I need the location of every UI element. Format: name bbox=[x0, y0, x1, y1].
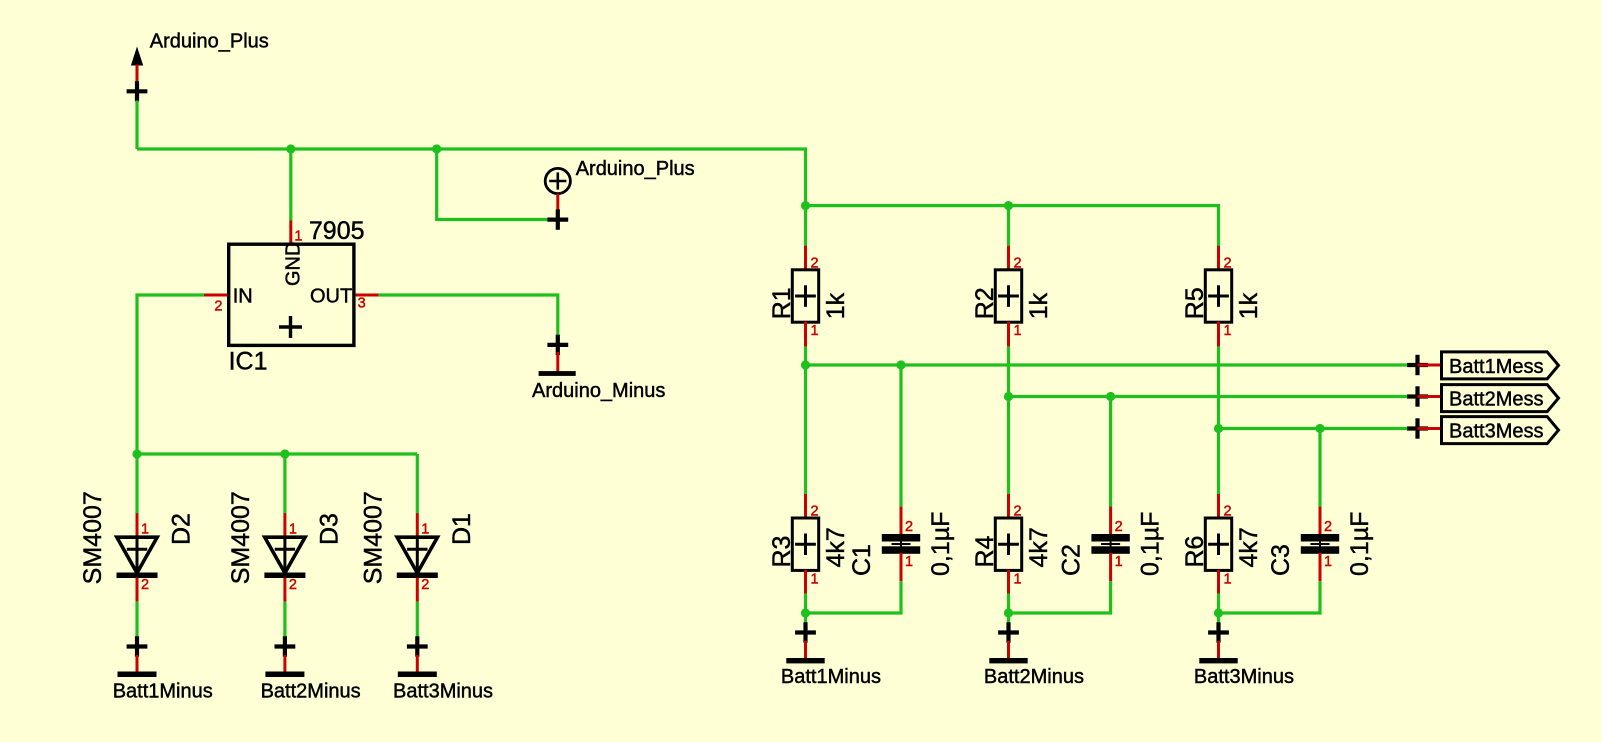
svg-text:2: 2 bbox=[1324, 519, 1332, 535]
label 1k (R2 value) bbox=[1025, 292, 1053, 319]
pin 1 stub of IC1 (GND) bbox=[289, 221, 292, 245]
wire from R2 bottom down to R4 bbox=[1007, 346, 1010, 494]
svg-text:1: 1 bbox=[294, 229, 302, 245]
junction at supply-symbol branch bbox=[432, 144, 441, 153]
pin name GND of IC1 bbox=[282, 242, 304, 286]
pin stub of net flag Batt3Mess bbox=[1418, 427, 1442, 430]
supply symbol Arduino_Plus arrow bbox=[131, 47, 143, 66]
resistor R4 body bbox=[995, 518, 1021, 570]
capacitor C1 body bbox=[882, 534, 920, 554]
pin of ground symbol Batt3Minus (diode column) bbox=[416, 655, 419, 672]
svg-text:1k: 1k bbox=[1025, 292, 1053, 319]
wire from junction down and right to Arduino_Plus supply symbol bbox=[437, 149, 558, 220]
pin number 1 of R4 bbox=[1014, 571, 1022, 587]
pin 1 stub of diode D3 bbox=[283, 513, 286, 538]
pin 2 stub of resistor R6 bbox=[1217, 494, 1220, 519]
resistor R5 body bbox=[1205, 270, 1231, 322]
origin cross of ground symbol Arduino_Minus bbox=[547, 335, 568, 355]
wire from C3 bottom left to ground junction bbox=[1219, 581, 1321, 613]
pin 1 stub of capacitor C3 bbox=[1319, 553, 1322, 581]
svg-text:Batt2Minus: Batt2Minus bbox=[984, 666, 1084, 688]
pin 2 stub of resistor R5 bbox=[1217, 246, 1220, 271]
svg-text:IN: IN bbox=[233, 286, 253, 308]
junction Batt1Mess at C1 column bbox=[896, 360, 905, 369]
origin cross of ground symbol Batt1Minus (diode column) bbox=[127, 636, 148, 656]
ground bar Batt1Minus bbox=[786, 658, 824, 663]
svg-text:SM4007: SM4007 bbox=[227, 491, 255, 584]
svg-text:1: 1 bbox=[141, 521, 149, 537]
junction Batt1Mess at R1 column bbox=[801, 360, 810, 369]
pin 1 stub of capacitor C2 bbox=[1109, 553, 1112, 581]
svg-text:C3: C3 bbox=[1267, 544, 1295, 576]
svg-text:C2: C2 bbox=[1058, 544, 1086, 576]
net flag label Batt2Mess bbox=[1449, 389, 1543, 411]
label 1k (R5 value) bbox=[1235, 292, 1263, 319]
junction Batt2Mess at C2 column bbox=[1106, 392, 1115, 401]
wire from R bottom to ground junction (Batt1Minus) bbox=[804, 594, 807, 623]
svg-text:1: 1 bbox=[421, 521, 429, 537]
label 4k7 (R6 value) bbox=[1235, 527, 1263, 567]
pin number 1 of R5 bbox=[1224, 323, 1232, 339]
wire from junction down to IC1 pin 1 bbox=[289, 149, 292, 221]
pin number 1 of R6 bbox=[1224, 571, 1232, 587]
pin number 1 of IC1 bbox=[294, 229, 302, 245]
pin number 1 of D3 bbox=[289, 521, 297, 537]
wire from diode D1 down to ground bbox=[416, 602, 419, 637]
label IC1 (IC1 name) bbox=[229, 348, 268, 376]
wire from top row down to R2 bbox=[1007, 206, 1010, 246]
svg-text:R2: R2 bbox=[971, 287, 999, 319]
svg-text:3: 3 bbox=[358, 296, 366, 312]
svg-text:Arduino_Plus: Arduino_Plus bbox=[150, 31, 269, 53]
resistor R6 body bbox=[1205, 518, 1231, 570]
pin of ground symbol Batt2Minus (diode column) bbox=[283, 655, 286, 672]
diode D2 (SM4007) bbox=[117, 537, 158, 575]
svg-text:2: 2 bbox=[905, 519, 913, 535]
ground label Batt3Minus bbox=[1194, 666, 1294, 688]
svg-text:4k7: 4k7 bbox=[822, 527, 850, 567]
pin stub of net flag Batt1Mess bbox=[1418, 364, 1442, 367]
net flag Batt1Mess outline bbox=[1442, 352, 1559, 379]
ground label Batt2Minus (diode column) bbox=[261, 680, 361, 702]
pin number 2 of R6 bbox=[1224, 504, 1232, 520]
svg-text:0,1µF: 0,1µF bbox=[927, 512, 955, 576]
label D2 (diode name) bbox=[168, 513, 196, 545]
ground bar Arduino_Minus bbox=[539, 371, 576, 376]
pin of ground symbol Batt1Minus (diode column) bbox=[136, 655, 139, 672]
ground bar Batt1Minus (diode column) bbox=[118, 672, 157, 678]
svg-text:Batt3Minus: Batt3Minus bbox=[393, 680, 493, 702]
pin number 2 of C1 bbox=[905, 519, 913, 535]
ground bar Batt2Minus (diode column) bbox=[265, 672, 304, 678]
label R6 (resistor name) bbox=[1181, 536, 1209, 568]
wire main horizontal Arduino_Plus net to resistor row bbox=[137, 149, 806, 206]
pin 1 stub of resistor R5 bbox=[1217, 322, 1220, 347]
svg-text:2: 2 bbox=[289, 577, 297, 593]
wire from top row down to R1 bbox=[804, 206, 807, 246]
pin number 1 of R1 bbox=[811, 323, 819, 339]
svg-text:R4: R4 bbox=[971, 535, 999, 567]
pin 2 stub of resistor R3 bbox=[804, 494, 807, 519]
wire from IC1 OUT to Arduino_Minus ground bbox=[379, 295, 558, 338]
wire from measurement row down to capacitor C2 bbox=[1109, 397, 1112, 508]
label R2 (resistor name) bbox=[971, 287, 999, 319]
pin 1 stub of resistor R4 bbox=[1007, 570, 1010, 595]
svg-text:2: 2 bbox=[214, 299, 222, 315]
label D1 (diode name) bbox=[448, 513, 476, 545]
label 4k7 (R4 value) bbox=[1025, 527, 1053, 567]
pin name OUT of IC1 bbox=[310, 286, 352, 308]
svg-text:1: 1 bbox=[1224, 323, 1232, 339]
diode D1 (SM4007) bbox=[397, 537, 438, 575]
pin 2 stub of diode D2 bbox=[136, 578, 139, 602]
svg-text:2: 2 bbox=[1224, 256, 1232, 272]
svg-text:Batt1Minus: Batt1Minus bbox=[781, 666, 881, 688]
origin cross of ground symbol Batt1Minus bbox=[795, 622, 816, 642]
ground bar Batt3Minus (diode column) bbox=[398, 672, 437, 678]
label 0,1µF (C3 value) bbox=[1346, 512, 1374, 576]
origin cross of ground symbol Batt2Minus bbox=[998, 622, 1019, 642]
svg-text:Batt1Minus: Batt1Minus bbox=[113, 680, 213, 702]
pin 1 stub of resistor R6 bbox=[1217, 570, 1220, 595]
svg-text:D3: D3 bbox=[316, 513, 344, 545]
svg-text:7905: 7905 bbox=[309, 217, 365, 245]
pin of ground symbol Batt3Minus bbox=[1217, 641, 1220, 658]
pin number 1 of R2 bbox=[1014, 323, 1022, 339]
label C2 (capacitor name) bbox=[1058, 544, 1086, 576]
junction at R1 top bbox=[801, 201, 810, 210]
pin number 2 of R5 bbox=[1224, 256, 1232, 272]
ground bar Batt3Minus bbox=[1199, 658, 1237, 663]
junction at ground Batt1Minus bbox=[801, 608, 810, 617]
origin cross of ground symbol Batt3Minus (diode column) bbox=[407, 636, 428, 656]
pin 1 stub of diode D2 bbox=[136, 513, 139, 538]
pin number 2 of D2 bbox=[141, 577, 149, 593]
pin 1 stub of resistor R2 bbox=[1007, 322, 1010, 347]
svg-text:0,1µF: 0,1µF bbox=[1346, 512, 1374, 576]
pin number 3 of IC1 bbox=[358, 296, 366, 312]
svg-text:SM4007: SM4007 bbox=[79, 491, 107, 584]
pin 1 stub of capacitor C1 bbox=[900, 553, 903, 581]
pin stub of net flag Batt2Mess bbox=[1418, 395, 1442, 398]
junction at D2 column bbox=[132, 449, 141, 458]
label R1 (resistor name) bbox=[768, 287, 796, 319]
pin 3 stub of IC1 (OUT) bbox=[356, 294, 379, 297]
ground bar Batt2Minus bbox=[989, 658, 1027, 663]
svg-text:1: 1 bbox=[811, 571, 819, 587]
pin number 2 of R1 bbox=[811, 256, 819, 272]
wire from C1 bottom left to ground junction bbox=[806, 581, 902, 613]
svg-text:1: 1 bbox=[905, 554, 913, 570]
svg-text:Batt3Minus: Batt3Minus bbox=[1194, 666, 1294, 688]
svg-text:2: 2 bbox=[421, 577, 429, 593]
junction at D3 column bbox=[280, 449, 289, 458]
wire net Batt2Mess horizontal bbox=[1009, 395, 1418, 398]
pin number 2 of R4 bbox=[1014, 504, 1022, 520]
pin number 1 of D2 bbox=[141, 521, 149, 537]
pin 2 stub of capacitor C3 bbox=[1319, 507, 1322, 535]
wire from diode row down to diode D1 bbox=[416, 454, 419, 514]
label 7905 (IC1 value) bbox=[309, 217, 365, 245]
label SM4007 (D1 value) bbox=[360, 491, 388, 584]
junction Batt3Mess at C3 column bbox=[1315, 424, 1324, 433]
svg-text:Batt2Minus: Batt2Minus bbox=[261, 680, 361, 702]
pin 2 stub of capacitor C2 bbox=[1109, 507, 1112, 535]
label 4k7 (R3 value) bbox=[822, 527, 850, 567]
supply symbol Arduino_Plus circle bbox=[545, 168, 570, 193]
pin 2 stub of diode D3 bbox=[283, 578, 286, 602]
pin number 2 of D1 bbox=[421, 577, 429, 593]
wire from C2 bottom left to ground junction bbox=[1009, 581, 1111, 613]
wire from IC1 IN left and down to diode row bbox=[137, 295, 204, 454]
label D3 (diode name) bbox=[316, 513, 344, 545]
svg-text:2: 2 bbox=[1224, 504, 1232, 520]
pin of ground symbol Batt1Minus bbox=[804, 641, 807, 658]
svg-text:2: 2 bbox=[811, 504, 819, 520]
label SM4007 (D3 value) bbox=[227, 491, 255, 584]
pin number 2 of R3 bbox=[811, 504, 819, 520]
svg-text:1: 1 bbox=[1014, 323, 1022, 339]
wire from measurement row down to capacitor C3 bbox=[1318, 429, 1321, 508]
svg-text:1: 1 bbox=[811, 323, 819, 339]
svg-text:Batt3Mess: Batt3Mess bbox=[1449, 421, 1543, 443]
label R5 (resistor name) bbox=[1181, 287, 1209, 319]
svg-text:1: 1 bbox=[1115, 554, 1123, 570]
wire from R5 bottom down to R6 bbox=[1217, 346, 1220, 494]
pin number 2 of C2 bbox=[1115, 519, 1123, 535]
wire top resistor-row horizontal bbox=[806, 206, 1219, 246]
svg-text:1: 1 bbox=[1224, 571, 1232, 587]
svg-text:1: 1 bbox=[289, 521, 297, 537]
ground label Batt1Minus (diode column) bbox=[113, 680, 213, 702]
label 0,1µF (C1 value) bbox=[927, 512, 955, 576]
svg-text:1: 1 bbox=[1014, 571, 1022, 587]
origin cross of ground symbol Batt2Minus (diode column) bbox=[275, 636, 296, 656]
svg-text:IC1: IC1 bbox=[229, 348, 268, 376]
label R4 (resistor name) bbox=[971, 535, 999, 567]
net flag label Batt1Mess bbox=[1449, 356, 1543, 378]
ground label Batt2Minus bbox=[984, 666, 1084, 688]
capacitor C2 body bbox=[1091, 534, 1129, 554]
origin cross inside IC1 bbox=[279, 316, 302, 338]
svg-text:4k7: 4k7 bbox=[1025, 527, 1053, 567]
ground label Batt1Minus bbox=[781, 666, 881, 688]
pin 2 stub of diode D1 bbox=[416, 578, 419, 602]
pin number 1 of D1 bbox=[421, 521, 429, 537]
pin number 1 of R3 bbox=[811, 571, 819, 587]
label C1 (capacitor name) bbox=[848, 544, 876, 576]
wire from measurement row down to capacitor C1 bbox=[899, 365, 902, 507]
pin 2 stub of IC1 (IN) bbox=[204, 294, 228, 297]
label R3 (resistor name) bbox=[768, 536, 796, 568]
svg-text:2: 2 bbox=[1115, 519, 1123, 535]
ground label Arduino_Minus bbox=[532, 380, 665, 402]
label 1k (R1 value) bbox=[822, 292, 850, 319]
origin cross at net flag Batt1Mess bbox=[1407, 355, 1428, 375]
junction at IC1 GND branch bbox=[286, 144, 295, 153]
net label Arduino_Plus (top left) bbox=[150, 31, 269, 53]
pin 2 stub of capacitor C1 bbox=[900, 507, 903, 535]
svg-text:2: 2 bbox=[811, 256, 819, 272]
wire from R bottom to ground junction (Batt3Minus) bbox=[1217, 594, 1220, 623]
diode D3 (SM4007) bbox=[264, 537, 305, 575]
svg-text:Arduino_Minus: Arduino_Minus bbox=[532, 380, 665, 402]
supply label Arduino_Plus (circle) bbox=[576, 158, 695, 180]
wire from R bottom to ground junction (Batt2Minus) bbox=[1007, 594, 1010, 623]
svg-text:2: 2 bbox=[141, 577, 149, 593]
label C3 (capacitor name) bbox=[1267, 544, 1295, 576]
junction Batt2Mess at R2 column bbox=[1004, 392, 1013, 401]
pin of ground symbol Arduino_Minus bbox=[556, 352, 559, 372]
svg-text:OUT: OUT bbox=[310, 286, 352, 308]
capacitor C3 body bbox=[1301, 534, 1339, 554]
pin name IN of IC1 bbox=[233, 286, 253, 308]
pin number 1 of C1 bbox=[905, 554, 913, 570]
svg-text:R1: R1 bbox=[768, 287, 796, 319]
junction at ground Batt3Minus bbox=[1214, 608, 1223, 617]
svg-text:1: 1 bbox=[1324, 554, 1332, 570]
wire from R1 bottom down to R3 (crosses measurement rows) bbox=[804, 346, 807, 494]
wire from diode row down to diode D2 bbox=[135, 454, 138, 514]
svg-text:4k7: 4k7 bbox=[1235, 527, 1263, 567]
svg-text:GND: GND bbox=[282, 242, 304, 286]
wire from diode D3 down to ground bbox=[283, 602, 286, 637]
label 0,1µF (C2 value) bbox=[1137, 512, 1165, 576]
svg-text:1k: 1k bbox=[822, 292, 850, 319]
pin number 1 of C3 bbox=[1324, 554, 1332, 570]
resistor R1 body bbox=[792, 270, 818, 322]
IC U1: IC1 7905 regulator box bbox=[229, 244, 354, 345]
resistor R3 body bbox=[792, 518, 818, 570]
svg-text:1k: 1k bbox=[1235, 292, 1263, 319]
junction at R2 top bbox=[1004, 201, 1013, 210]
wire from diode row down to diode D3 bbox=[283, 454, 286, 514]
origin cross at net flag Batt2Mess bbox=[1407, 386, 1428, 406]
resistor R2 body bbox=[995, 270, 1021, 322]
wire from diode D2 down to ground bbox=[135, 602, 138, 637]
svg-text:Arduino_Plus: Arduino_Plus bbox=[576, 158, 695, 180]
pin number 2 of R2 bbox=[1014, 256, 1022, 272]
svg-text:0,1µF: 0,1µF bbox=[1137, 512, 1165, 576]
svg-text:R5: R5 bbox=[1181, 287, 1209, 319]
net flag Batt3Mess outline bbox=[1442, 417, 1559, 444]
pin of supply symbol Arduino_Plus (top left) bbox=[136, 65, 139, 82]
pin 2 stub of resistor R4 bbox=[1007, 494, 1010, 519]
svg-text:Batt2Mess: Batt2Mess bbox=[1449, 389, 1543, 411]
junction Batt3Mess at R5 column bbox=[1214, 424, 1223, 433]
pin number 2 of D3 bbox=[289, 577, 297, 593]
svg-text:SM4007: SM4007 bbox=[360, 491, 388, 584]
net flag label Batt3Mess bbox=[1449, 421, 1543, 443]
svg-text:R6: R6 bbox=[1181, 536, 1209, 568]
pin of ground symbol Batt2Minus bbox=[1007, 641, 1010, 658]
svg-text:D1: D1 bbox=[448, 513, 476, 545]
pin of supply symbol Arduino_Plus (circle) bbox=[556, 194, 559, 212]
svg-text:2: 2 bbox=[1014, 256, 1022, 272]
svg-text:2: 2 bbox=[1014, 504, 1022, 520]
origin cross of supply symbol Arduino_Plus (top left) bbox=[127, 81, 148, 101]
ground label Batt3Minus (diode column) bbox=[393, 680, 493, 702]
pin 2 stub of resistor R2 bbox=[1007, 246, 1010, 271]
pin 1 stub of resistor R1 bbox=[804, 322, 807, 347]
origin cross of ground symbol Batt3Minus bbox=[1208, 622, 1229, 642]
svg-text:C1: C1 bbox=[848, 544, 876, 576]
wire diode row horizontal bbox=[137, 452, 417, 455]
svg-text:Batt1Mess: Batt1Mess bbox=[1449, 356, 1543, 378]
wire from Arduino_Plus arrow down to main horizontal net bbox=[135, 101, 138, 150]
origin cross below Arduino_Plus circle bbox=[547, 209, 568, 229]
pin number 2 of IC1 bbox=[214, 299, 222, 315]
wire net Batt1Mess horizontal bbox=[806, 363, 1418, 366]
pin 1 stub of resistor R3 bbox=[804, 570, 807, 595]
pin 1 stub of diode D1 bbox=[416, 513, 419, 538]
label SM4007 (D2 value) bbox=[79, 491, 107, 584]
junction at ground Batt2Minus bbox=[1004, 608, 1013, 617]
svg-text:D2: D2 bbox=[168, 513, 196, 545]
origin cross at net flag Batt3Mess bbox=[1407, 418, 1428, 438]
net flag Batt2Mess outline bbox=[1442, 385, 1559, 412]
pin number 1 of C2 bbox=[1115, 554, 1123, 570]
wire net Batt3Mess horizontal bbox=[1219, 427, 1418, 430]
pin number 2 of C3 bbox=[1324, 519, 1332, 535]
pin 2 stub of resistor R1 bbox=[804, 246, 807, 271]
svg-text:R3: R3 bbox=[768, 536, 796, 568]
